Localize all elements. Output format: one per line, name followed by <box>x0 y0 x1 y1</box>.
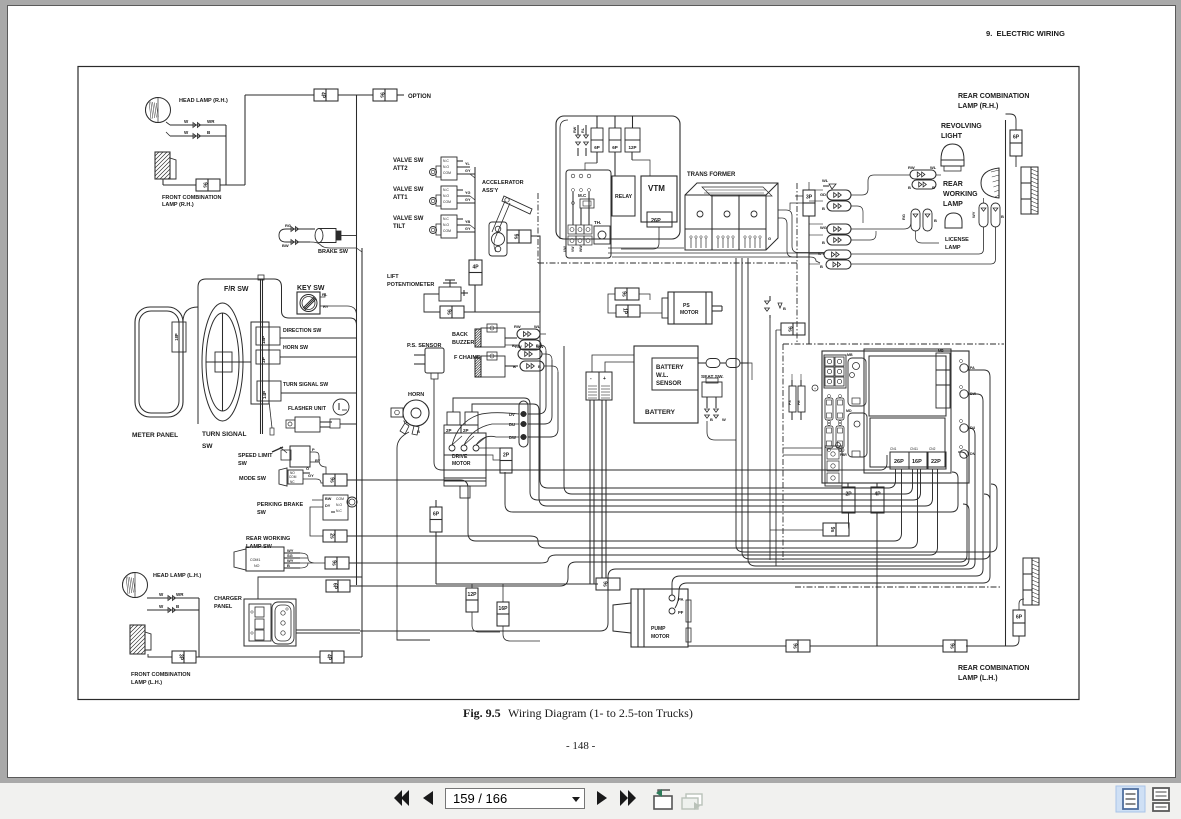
svg-text:KEY SW: KEY SW <box>297 285 325 292</box>
svg-text:RY: RY <box>323 304 329 309</box>
svg-text:COM: COM <box>289 475 297 479</box>
svg-text:HORN SW: HORN SW <box>283 345 308 351</box>
svg-text:MOTOR: MOTOR <box>452 461 471 467</box>
svg-text:M.C: M.C <box>578 193 587 198</box>
svg-text:16P: 16P <box>499 606 509 612</box>
svg-text:POTENTIOMETER: POTENTIOMETER <box>387 282 434 288</box>
svg-text:REAR COMBINATION: REAR COMBINATION <box>958 665 1029 672</box>
svg-text:REVOLVING: REVOLVING <box>941 123 982 130</box>
svg-text:YG: YG <box>465 191 471 195</box>
svg-text:REAR: REAR <box>943 181 963 188</box>
svg-text:TH.: TH. <box>594 220 601 225</box>
svg-text:2P: 2P <box>503 452 510 458</box>
svg-text:Wiring Diagram (1- to 2.5-ton: Wiring Diagram (1- to 2.5-ton Trucks) <box>508 706 693 720</box>
svg-text:3P: 3P <box>178 654 184 661</box>
svg-text:W: W <box>159 604 164 609</box>
svg-text:9s: 9s <box>331 560 337 566</box>
svg-text:SW: SW <box>202 443 213 450</box>
svg-text:6P: 6P <box>1016 615 1023 621</box>
svg-text:B: B <box>822 206 825 211</box>
svg-text:VALVE SW: VALVE SW <box>393 187 424 193</box>
svg-text:N.C: N.C <box>443 217 449 221</box>
svg-text:PA: PA <box>678 597 684 602</box>
svg-text:WY: WY <box>971 211 976 218</box>
svg-text:COM: COM <box>443 229 451 233</box>
svg-text:WY: WY <box>818 251 825 256</box>
svg-text:N.O: N.O <box>443 223 449 227</box>
svg-text:FRONT COMBINATION: FRONT COMBINATION <box>131 672 191 678</box>
svg-text:COM: COM <box>443 171 451 175</box>
svg-text:LAMP: LAMP <box>945 245 961 251</box>
svg-text:DW: DW <box>970 392 977 396</box>
svg-text:LIFT: LIFT <box>387 274 399 280</box>
svg-text:B: B <box>207 130 211 135</box>
svg-text:9s: 9s <box>829 527 835 533</box>
svg-text:DU: DU <box>970 426 976 430</box>
svg-text:BATTERY: BATTERY <box>656 365 684 371</box>
svg-text:METER PANEL: METER PANEL <box>132 432 178 439</box>
svg-text:VW: VW <box>571 246 575 252</box>
svg-text:YL: YL <box>403 419 409 424</box>
svg-text:9s: 9s <box>329 477 335 483</box>
svg-text:COM: COM <box>443 200 451 204</box>
svg-text:6P: 6P <box>1013 135 1020 141</box>
svg-text:RELAY: RELAY <box>615 194 633 200</box>
svg-text:26P: 26P <box>894 459 904 465</box>
svg-text:COM1: COM1 <box>250 558 260 562</box>
svg-text:12P: 12P <box>628 145 636 150</box>
svg-text:MODE SW: MODE SW <box>239 476 267 482</box>
svg-text:W: W <box>159 592 164 597</box>
svg-text:MB: MB <box>847 353 853 357</box>
svg-text:6P: 6P <box>612 145 618 150</box>
svg-text:PS: PS <box>683 303 690 309</box>
svg-text:RL: RL <box>581 127 585 133</box>
svg-text:B: B <box>820 264 823 269</box>
svg-text:G: G <box>768 236 771 241</box>
svg-text:W.L.: W.L. <box>656 373 669 379</box>
svg-text:GY: GY <box>308 473 314 478</box>
svg-text:WR: WR <box>207 119 215 124</box>
svg-text:DY: DY <box>325 504 331 508</box>
svg-text:14P: 14P <box>262 391 267 399</box>
svg-text:REAR COMBINATION: REAR COMBINATION <box>958 93 1029 100</box>
svg-text:B: B <box>822 240 825 245</box>
svg-text:22P: 22P <box>931 459 941 465</box>
svg-text:Fig. 9.5: Fig. 9.5 <box>463 706 501 720</box>
svg-text:DIRECTION SW: DIRECTION SW <box>283 328 321 334</box>
svg-text:FLASHER UNIT: FLASHER UNIT <box>288 406 327 412</box>
svg-text:W: W <box>184 119 189 124</box>
svg-text:WORKING: WORKING <box>943 191 978 198</box>
svg-text:MOTOR: MOTOR <box>651 634 670 640</box>
svg-text:4P: 4P <box>326 654 332 661</box>
svg-text:BW: BW <box>282 243 289 248</box>
svg-text:VALVE SW: VALVE SW <box>393 216 424 222</box>
svg-text:MOTOR: MOTOR <box>680 310 699 316</box>
svg-text:9. ELECTRIC WIRING: 9. ELECTRIC WIRING <box>986 29 1065 38</box>
svg-text:MB: MB <box>938 349 944 353</box>
svg-text:O: O <box>306 466 309 471</box>
svg-text:3P: 3P <box>806 195 813 201</box>
svg-text:TRANS FORMER: TRANS FORMER <box>687 172 736 178</box>
svg-text:N.O: N.O <box>443 194 449 198</box>
svg-text:LIGHT: LIGHT <box>941 133 963 140</box>
svg-text:B: B <box>287 563 290 568</box>
svg-text:9s: 9s <box>621 291 627 297</box>
svg-text:WW: WW <box>579 245 583 252</box>
svg-text:RW: RW <box>514 324 521 329</box>
svg-text:B: B <box>783 306 786 311</box>
svg-text:BACK: BACK <box>452 332 468 338</box>
svg-text:SENSOR: SENSOR <box>656 381 682 387</box>
svg-text:DRIVE: DRIVE <box>452 454 468 460</box>
svg-text:B: B <box>538 364 541 369</box>
svg-text:9s: 9s <box>792 643 798 649</box>
svg-text:N.C: N.C <box>336 509 342 513</box>
svg-text:GD: GD <box>820 192 826 197</box>
svg-text:B: B <box>176 604 180 609</box>
svg-text:-: - <box>590 376 592 382</box>
svg-text:N.C: N.C <box>443 188 449 192</box>
svg-text:WL: WL <box>930 165 937 170</box>
svg-text:HEAD LAMP (L.H.): HEAD LAMP (L.H.) <box>153 573 201 579</box>
svg-text:2P: 2P <box>261 357 266 363</box>
svg-text:FRONT COMBINATION: FRONT COMBINATION <box>162 195 222 201</box>
svg-text:TURN SIGNAL: TURN SIGNAL <box>202 431 246 438</box>
svg-text:BRAKE SW: BRAKE SW <box>318 249 349 255</box>
svg-text:GY: GY <box>465 227 471 231</box>
svg-text:WG: WG <box>820 225 827 230</box>
svg-text:B: B <box>908 185 911 190</box>
svg-text:BW: BW <box>325 497 332 501</box>
svg-text:6P: 6P <box>332 583 338 590</box>
svg-text:F/R SW: F/R SW <box>224 286 249 293</box>
svg-text:REAR WORKING: REAR WORKING <box>246 536 290 542</box>
svg-text:DN: DN <box>970 452 976 456</box>
svg-text:RG: RG <box>901 214 906 220</box>
svg-text:9s: 9s <box>446 309 452 315</box>
svg-text:NO: NO <box>254 564 260 568</box>
svg-text:PA: PA <box>970 366 975 370</box>
svg-text:+: + <box>603 376 606 382</box>
svg-text:B: B <box>417 429 420 434</box>
svg-text:BUZZER: BUZZER <box>452 340 474 346</box>
svg-text:2P: 2P <box>463 428 469 433</box>
svg-text:HEAD LAMP (R.H.): HEAD LAMP (R.H.) <box>179 98 228 104</box>
svg-text:26P: 26P <box>651 218 661 224</box>
svg-text:9s: 9s <box>949 643 955 649</box>
svg-text:9s: 9s <box>513 234 519 240</box>
svg-text:+: + <box>814 387 816 391</box>
svg-text:P: P <box>312 447 315 452</box>
svg-text:B: B <box>710 417 713 422</box>
svg-text:1P: 1P <box>622 308 628 315</box>
svg-text:B: B <box>932 185 935 190</box>
svg-text:FE: FE <box>797 400 801 405</box>
svg-text:RW: RW <box>573 126 577 133</box>
svg-text:SW: SW <box>238 461 248 467</box>
svg-text:LAMP (R.H.): LAMP (R.H.) <box>958 103 998 110</box>
svg-text:CN11: CN11 <box>910 447 918 451</box>
svg-text:SW: SW <box>257 510 267 516</box>
svg-text:UW: UW <box>563 246 567 252</box>
svg-text:BATTERY: BATTERY <box>645 409 676 416</box>
svg-text:9s: 9s <box>787 326 793 332</box>
svg-text:OPTION: OPTION <box>408 94 431 100</box>
svg-text:6P: 6P <box>433 511 440 517</box>
svg-text:ASS'Y: ASS'Y <box>482 188 499 194</box>
svg-text:LAMP (L.H.): LAMP (L.H.) <box>131 680 162 686</box>
svg-text:FS: FS <box>788 400 792 405</box>
svg-text:YL: YL <box>465 162 471 166</box>
svg-text:18P: 18P <box>174 333 179 341</box>
svg-text:4P: 4P <box>472 264 479 270</box>
svg-text:VTM: VTM <box>648 184 665 193</box>
svg-text:PANEL: PANEL <box>214 604 233 610</box>
svg-text:RG: RG <box>285 223 291 228</box>
svg-text:YB: YB <box>465 220 471 224</box>
svg-text:LAMP: LAMP <box>943 201 963 208</box>
svg-text:MD: MD <box>846 409 852 413</box>
svg-text:ATT1: ATT1 <box>393 195 408 201</box>
svg-text:CHARGER: CHARGER <box>214 596 242 602</box>
svg-text:WR: WR <box>176 592 184 597</box>
svg-text:CN1: CN1 <box>890 447 897 451</box>
svg-text:6P: 6P <box>594 145 600 150</box>
svg-text:DW: DW <box>509 435 516 440</box>
svg-text:WL: WL <box>822 178 829 183</box>
svg-text:SPEED LIMIT: SPEED LIMIT <box>238 453 273 459</box>
svg-text:N.O: N.O <box>443 165 449 169</box>
svg-text:12P: 12P <box>468 592 478 598</box>
svg-text:COM: COM <box>336 497 344 501</box>
svg-text:9s: 9s <box>602 581 608 587</box>
svg-text:CN2: CN2 <box>929 447 936 451</box>
svg-text:GY: GY <box>465 198 471 202</box>
svg-text:16P: 16P <box>912 459 922 465</box>
svg-text:PBR: PBR <box>840 453 847 457</box>
svg-text:LAMP (L.H.): LAMP (L.H.) <box>958 675 998 682</box>
svg-text:TILT: TILT <box>393 224 406 230</box>
svg-text:2s: 2s <box>329 533 335 539</box>
svg-text:SEAT SW.: SEAT SW. <box>701 374 724 380</box>
svg-text:18P: 18P <box>261 336 266 344</box>
svg-text:2P: 2P <box>446 428 452 433</box>
svg-text:9s: 9s <box>202 182 208 188</box>
svg-text:RW: RW <box>515 344 522 349</box>
svg-text:HORN: HORN <box>408 392 424 398</box>
svg-text:PUMP: PUMP <box>651 626 666 632</box>
svg-text:2P: 2P <box>845 492 852 498</box>
svg-text:DU: DU <box>509 422 515 427</box>
svg-text:4P: 4P <box>320 92 326 99</box>
svg-text:N.O: N.O <box>336 503 342 507</box>
svg-text:B: B <box>934 218 937 223</box>
svg-text:W: W <box>184 130 189 135</box>
svg-text:LAMP (R.H.): LAMP (R.H.) <box>162 202 194 208</box>
svg-text:W: W <box>722 417 726 422</box>
svg-text:VALVE SW: VALVE SW <box>393 158 424 164</box>
svg-text:DV: DV <box>509 412 515 417</box>
svg-text:9s: 9s <box>379 92 385 98</box>
svg-text:NC: NC <box>290 480 295 484</box>
svg-text:RW: RW <box>908 165 915 170</box>
svg-text:- 148 -: - 148 - <box>566 740 596 752</box>
svg-text:ACCELERATOR: ACCELERATOR <box>482 180 524 186</box>
svg-text:TURN SIGNAL SW: TURN SIGNAL SW <box>283 382 328 388</box>
svg-text:PF: PF <box>678 610 684 615</box>
svg-text:4P: 4P <box>874 492 881 498</box>
svg-text:N.C: N.C <box>443 159 449 163</box>
svg-text:PERKING BRAKE: PERKING BRAKE <box>257 502 303 508</box>
svg-text:LICENSE: LICENSE <box>945 237 969 243</box>
svg-text:GY: GY <box>465 169 471 173</box>
svg-text:B: B <box>1001 214 1004 219</box>
svg-text:ATT2: ATT2 <box>393 166 408 172</box>
